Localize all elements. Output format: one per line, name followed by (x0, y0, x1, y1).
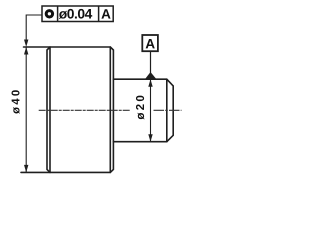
concentricity symbol (46, 11, 52, 17)
wire: leader horizontal and vertical run (26, 15, 42, 41)
wire: right chamfer edge line (166, 80, 168, 141)
centerline axis dash-dot (39, 109, 131, 111)
dimension Ø20 (136, 79, 153, 142)
wire: small cylinder bottom edge (113, 141, 166, 143)
wire: bottom edge plus left extension line (21, 171, 110, 173)
datum feature symbol A (142, 35, 158, 79)
part outline: small cylinder Ø20 (113, 79, 173, 142)
wire: datum leader line (150, 52, 152, 73)
arrowhead down at bottom of Ø20 dimension (148, 134, 152, 142)
wire: left chamfer edge line (49, 48, 51, 172)
arrowhead down at bottom of Ø40 dimension (24, 165, 28, 173)
leader from feature control frame (24, 15, 42, 47)
tolerance value Ø0.04 (59, 9, 92, 19)
wire: top edge plus left extension line (24, 46, 111, 48)
datum triangle filled (145, 72, 157, 79)
wire: right chamfer edge line of big cylinder (109, 48, 111, 172)
wire: right end face with chamfers (167, 79, 173, 142)
wire: left end face with chamfered corners (47, 47, 50, 172)
part outline: big cylinder Ø40 (21, 47, 113, 172)
arrowhead down onto extension line (24, 40, 28, 48)
value label Ø40 (rotated) (12, 90, 20, 114)
arrowhead up at top of Ø40 dimension (24, 47, 28, 55)
datum letter A (146, 39, 155, 48)
feature control frame: concentricity Ø0.04 A (42, 6, 113, 22)
datum reference letter A (101, 9, 110, 18)
wire: Ø40 dimension line (25, 47, 27, 172)
frame box with cell dividers (42, 6, 113, 22)
wire: Ø20 dimension line (150, 79, 152, 142)
wire: small cylinder top edge (113, 78, 166, 80)
wire: step end face with chamfered corners (110, 47, 113, 172)
arrowhead up at top of Ø20 dimension (148, 79, 152, 87)
datum box (142, 35, 158, 51)
dimension Ø40 (12, 47, 29, 172)
value label Ø20 (rotated) (136, 96, 144, 120)
